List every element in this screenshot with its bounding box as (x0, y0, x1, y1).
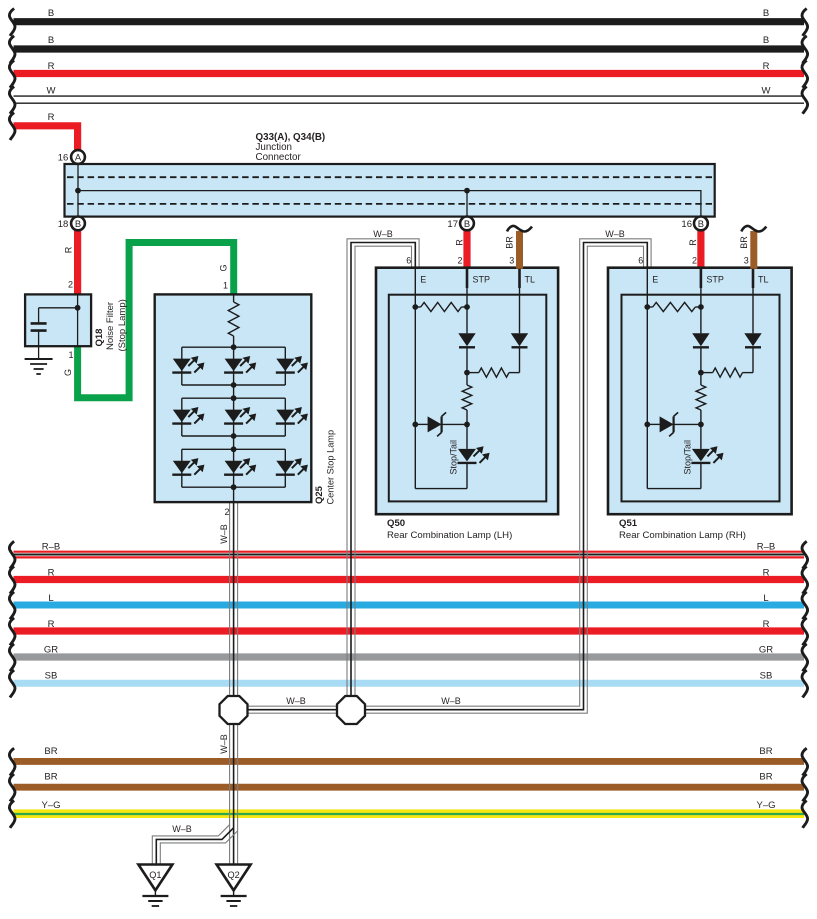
svg-text:W–B: W–B (373, 229, 393, 239)
svg-text:W: W (762, 85, 771, 96)
svg-text:(Stop Lamp): (Stop Lamp) (117, 299, 128, 351)
svg-text:Connector: Connector (256, 152, 302, 163)
svg-text:R–B: R–B (42, 541, 60, 552)
wire R (stop lamp feed to junction connector pin 16A) (9, 112, 77, 152)
resistor (Q50 between E and STP) (415, 302, 470, 311)
svg-text:Q1: Q1 (149, 870, 161, 880)
svg-text:L: L (48, 593, 53, 604)
svg-text:17: 17 (447, 219, 458, 230)
svg-text:L: L (763, 593, 768, 604)
svg-text:BR: BR (739, 236, 749, 249)
diode (Q50 STP) (458, 268, 475, 385)
svg-text:G: G (63, 369, 73, 376)
svg-text:B: B (48, 35, 54, 46)
Q25 pin labels (223, 280, 336, 504)
svg-text:B: B (48, 8, 54, 19)
wire (Q51 E pin line) (644, 268, 650, 489)
svg-text:R: R (763, 61, 770, 72)
diode (Q51 TL) (743, 268, 762, 373)
diode (Q51 STP) (692, 268, 709, 385)
svg-text:Stop/Tail: Stop/Tail (682, 440, 692, 475)
node (W-B splice junction left) (220, 696, 248, 724)
resistor (Q25 series resistor) (228, 302, 239, 336)
connector pin 16 (A) (58, 150, 85, 164)
rear combination lamp Q51 (box) (608, 268, 792, 515)
wire R (junction connector pin 17B to Q50 STP pin 2) (454, 223, 467, 268)
svg-text:G: G (218, 264, 228, 271)
svg-text:B: B (763, 35, 769, 46)
svg-text:E: E (652, 275, 658, 285)
svg-text:1: 1 (68, 350, 73, 360)
resistor (Q51 STP vertical) (696, 385, 706, 449)
wire R (bottom bus row 4) (9, 618, 807, 645)
LED (Q50 Stop/Tail) (449, 440, 490, 489)
node (W-B splice junction right) (337, 696, 365, 724)
svg-text:6: 6 (638, 256, 643, 266)
wire R (top bus row 3) (9, 60, 807, 87)
zener diode (Q51) (647, 412, 701, 436)
svg-text:R: R (48, 567, 55, 578)
wire B (top bus row 2) (9, 35, 807, 63)
wire L (bottom bus row 3) (9, 592, 807, 619)
svg-text:Rear Combination Lamp (LH): Rear Combination Lamp (LH) (387, 530, 512, 541)
svg-text:Center Stop Lamp: Center Stop Lamp (326, 430, 336, 505)
center stop lamp Q25 (box) (155, 294, 312, 502)
wire BR (to Q50 TL pin 3) (504, 226, 532, 269)
ground Q2 (217, 865, 251, 907)
svg-text:Q2: Q2 (227, 870, 239, 880)
svg-text:Y–G: Y–G (756, 800, 775, 811)
svg-text:BR: BR (44, 746, 57, 757)
wire W-B (branch to ground Q1) (152, 824, 237, 865)
svg-text:1: 1 (223, 280, 228, 290)
wire (Q25 internal center line) (233, 336, 235, 501)
svg-text:18: 18 (58, 219, 69, 230)
svg-text:B: B (464, 218, 470, 229)
svg-text:A: A (75, 151, 82, 162)
svg-text:R: R (763, 619, 770, 630)
svg-text:SB: SB (760, 671, 773, 682)
svg-text:BR: BR (759, 772, 772, 783)
svg-text:STP: STP (706, 275, 724, 285)
svg-text:Q25: Q25 (314, 485, 325, 504)
svg-text:B: B (75, 218, 81, 229)
wire W-B (Q25 pin 2 down to junction node) (219, 503, 237, 705)
svg-text:R: R (763, 567, 770, 578)
connector pin 17 (B) (447, 217, 473, 231)
wire (Q50 E pin line) (412, 268, 418, 489)
svg-text:STP: STP (473, 275, 491, 285)
wire W-B (junction node down to grounds) (219, 715, 237, 865)
svg-text:Q51: Q51 (619, 518, 638, 529)
svg-text:W–B: W–B (605, 229, 625, 239)
svg-text:Rear Combination Lamp (RH): Rear Combination Lamp (RH) (619, 530, 746, 541)
junction connector Q33(A), Q34(B) (65, 164, 715, 217)
LED (Q51 Stop/Tail) (682, 440, 723, 489)
svg-text:2: 2 (692, 256, 697, 266)
wire W-B (between junction nodes) (247, 696, 461, 713)
Q50 name label (387, 518, 512, 541)
svg-text:Noise Filter: Noise Filter (105, 302, 116, 350)
svg-text:Q50: Q50 (387, 518, 405, 529)
wire SB (bottom bus row 6) (9, 670, 807, 697)
svg-text:E: E (420, 275, 426, 285)
svg-text:R: R (454, 239, 464, 246)
resistor (Q50 STP vertical) (462, 385, 472, 449)
ground Q1 (138, 865, 172, 907)
svg-text:R–B: R–B (757, 541, 775, 552)
svg-text:Q18: Q18 (94, 329, 105, 347)
svg-text:16: 16 (681, 219, 692, 230)
svg-text:TL: TL (758, 275, 769, 285)
svg-text:3: 3 (509, 256, 514, 266)
Q51 pin labels E/STP/TL (652, 275, 768, 285)
rear combination lamp Q50 (box) (376, 268, 558, 515)
LED bank row 3 (Q25) (172, 446, 308, 490)
wire W (top bus row 4) (9, 85, 807, 113)
svg-text:BR: BR (504, 236, 514, 249)
svg-text:2: 2 (68, 279, 73, 289)
wire W-B (junction node to Q50 pin 6) (347, 229, 419, 705)
svg-text:R: R (48, 619, 55, 630)
svg-text:W–B: W–B (219, 734, 229, 754)
wire (connector bus tap to pin 17B) (466, 191, 468, 224)
connector pin 18 (B) (58, 217, 85, 231)
svg-text:SB: SB (45, 671, 58, 682)
svg-text:B: B (763, 8, 769, 19)
wire R (junction connector pin 18B to Q18 pin 2) (64, 223, 78, 295)
svg-text:6: 6 (406, 256, 411, 266)
svg-text:BR: BR (759, 746, 772, 757)
diode (Q50 TL) (509, 268, 528, 373)
wire GR (bottom bus row 5) (9, 644, 807, 671)
wire (pin A to pin B through connector) (77, 157, 79, 223)
wire Y-G (lower bus row 3) (9, 800, 807, 828)
Q51 name label (619, 518, 746, 541)
Q50 pin labels E/STP/TL (420, 275, 535, 285)
svg-text:W: W (47, 85, 56, 96)
zener diode (Q50) (415, 412, 467, 436)
svg-text:TL: TL (525, 275, 536, 285)
svg-text:W–B: W–B (441, 696, 461, 706)
resistor (Q51 between E and STP) (647, 302, 704, 311)
svg-text:R: R (688, 239, 698, 246)
svg-text:R: R (48, 61, 55, 72)
svg-text:2: 2 (457, 256, 462, 266)
svg-text:GR: GR (44, 645, 58, 656)
resistor (Q50 TL to STP) (467, 368, 509, 377)
Q18 labels (68, 299, 128, 360)
svg-text:R: R (48, 112, 55, 123)
wire (internal bus of junction connector) (75, 188, 701, 216)
wire (Q50 bottom return) (415, 488, 467, 490)
svg-text:Stop/Tail: Stop/Tail (449, 440, 459, 475)
wire R (junction connector pin 16B to Q51 STP pin 2) (688, 223, 701, 268)
svg-text:W–B: W–B (286, 696, 306, 706)
wire R (bottom bus row 2) (9, 566, 807, 593)
wire W-B (junction node to Q51 pin 6) (351, 229, 651, 713)
wire B (top bus row 1) (9, 8, 807, 36)
LED bank row 2 (Q25) (172, 395, 308, 439)
svg-text:B: B (698, 218, 704, 229)
svg-text:GR: GR (759, 645, 773, 656)
wire (Q51 bottom return) (647, 488, 701, 490)
LED bank row 1 (Q25) (172, 344, 308, 388)
wire R-B (bottom bus row 1) (9, 541, 807, 568)
wire BR (to Q51 TL pin 3) (739, 226, 767, 269)
svg-text:R: R (64, 246, 74, 253)
resistor (Q51 TL to STP) (701, 368, 743, 377)
wire BR (lower bus row 2) (9, 772, 807, 802)
svg-text:2: 2 (224, 507, 229, 517)
svg-text:BR: BR (44, 772, 57, 783)
svg-text:3: 3 (744, 256, 749, 266)
junction connector title label (256, 132, 326, 163)
svg-text:Y–G: Y–G (41, 800, 60, 811)
noise filter Q18 (capacitor) (25, 294, 91, 359)
wire BR (lower bus row 1) (9, 746, 807, 776)
wire G (Q18 pin 1 to Q25 pin 1) (63, 243, 234, 398)
svg-text:16: 16 (58, 153, 69, 164)
svg-text:W–B: W–B (219, 524, 229, 544)
svg-text:W–B: W–B (172, 824, 192, 834)
connector pin 16 (B) (681, 217, 707, 231)
ground (Q18 noise filter) (25, 359, 53, 374)
